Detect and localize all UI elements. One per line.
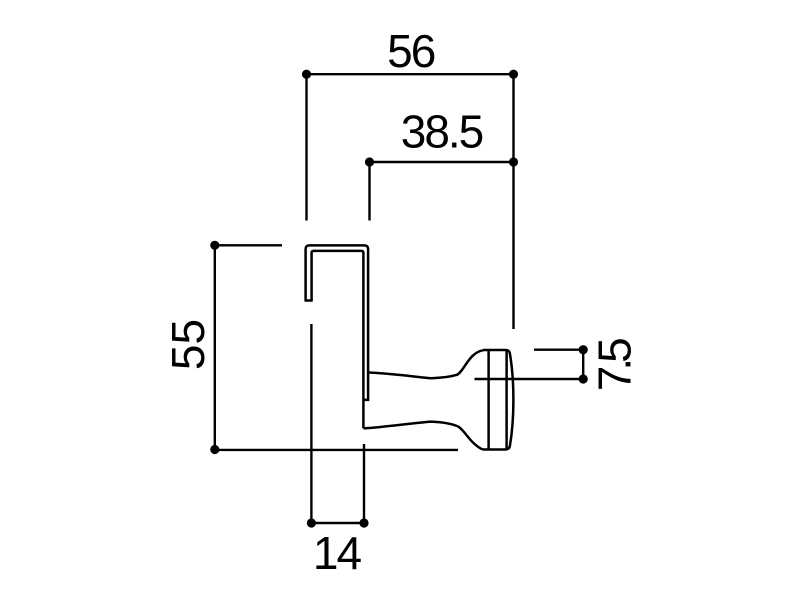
svg-text:38.5: 38.5 — [401, 106, 483, 158]
svg-text:56: 56 — [387, 25, 435, 77]
svg-text:7.5: 7.5 — [589, 339, 641, 391]
svg-text:55: 55 — [162, 319, 214, 370]
svg-text:14: 14 — [313, 527, 362, 579]
